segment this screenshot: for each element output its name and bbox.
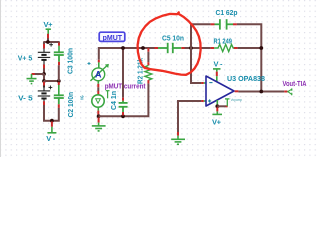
jumper V- opamp: [213, 69, 221, 72]
wire output: [235, 90, 239, 92]
ground VG1: [98, 118, 100, 123]
svg-text:V+ 5: V+ 5: [18, 53, 33, 62]
wire ammeter to VG1: [97, 81, 99, 84]
svg-text:U3 OPA838: U3 OPA838: [227, 74, 265, 83]
svg-text:R1 249: R1 249: [214, 36, 233, 45]
battery V+5 plus marker: [49, 43, 53, 47]
capacitor C4: [122, 98, 124, 101]
wire VG1 bottom: [97, 107, 99, 110]
resistor R2: [147, 48, 149, 52]
node C4 top (on bus): [121, 46, 125, 50]
ammeter AM1 pMUT current: [90, 65, 107, 81]
jumper pin VG1 side: [106, 91, 110, 99]
jumper V+ opamp: [216, 107, 218, 111]
red annotation ellipse around C5: [138, 12, 201, 74]
svg-text:Vopamp: Vopamp: [231, 98, 243, 102]
wire R1 to right vertical: [238, 47, 262, 49]
node C: [57, 79, 61, 83]
svg-text:C1 62p: C1 62p: [216, 8, 238, 17]
capacitor C2: [54, 95, 64, 104]
wire to sense pin: [217, 105, 226, 107]
node opamp supply: [215, 104, 219, 108]
svg-text:A: A: [95, 70, 102, 80]
opamp V+ pin: [216, 100, 218, 104]
wire battery V-5 top lead: [43, 81, 45, 88]
wire battery bottom: [43, 65, 45, 75]
wire top node row: [44, 41, 59, 43]
jumper V+ top: [46, 29, 51, 34]
sense pin jumper: [225, 99, 230, 106]
capacitor C5: [155, 47, 159, 49]
jumper V- bottom: [51, 122, 53, 127]
opamp plus marker: [208, 99, 211, 102]
wire main bus: [99, 48, 155, 60]
battery V-5: [38, 91, 50, 101]
wire +input row: [178, 101, 201, 132]
opamp minus marker: [209, 82, 212, 84]
svg-text:C3 100n: C3 100n: [66, 48, 75, 74]
svg-text:V+: V+: [44, 20, 54, 29]
node C4 bottom: [121, 114, 125, 118]
wire cap row: [44, 80, 59, 82]
ground +input: [177, 132, 179, 136]
wire C4 column: [122, 48, 124, 98]
svg-text:V- 5: V- 5: [18, 94, 33, 103]
svg-text:C2 100n: C2 100n: [66, 92, 75, 118]
wire column node to node: [43, 74, 45, 81]
wire V+ jumper to node: [47, 34, 49, 42]
capacitor C2 top lead: [58, 82, 60, 85]
svg-text:Vout-TIA: Vout-TIA: [283, 81, 307, 88]
node B: [42, 79, 46, 83]
node R2 bus dot: [141, 46, 145, 50]
capacitor C3: [54, 52, 64, 62]
resistor R1: [211, 47, 215, 49]
battery V-5 plus marker: [49, 86, 53, 90]
wire C1 to right corner: [237, 24, 261, 91]
wire to ground: [32, 73, 45, 75]
wire C1 row: [191, 23, 211, 25]
svg-text:C4 1n: C4 1n: [109, 91, 118, 110]
svg-text:C5 10n: C5 10n: [162, 34, 184, 43]
ammeter plus marker: [88, 62, 91, 65]
node output: [259, 90, 263, 94]
battery V+5: [38, 52, 50, 64]
node ground tap: [42, 72, 46, 76]
capacitor C3 top lead: [58, 41, 60, 43]
wire C2 bottom corner: [52, 108, 59, 121]
node R1 C1 join: [259, 46, 263, 50]
label pMUT box: [99, 32, 125, 41]
wire battery V-5 bottom: [44, 101, 52, 120]
jumper Vout: [288, 89, 292, 95]
svg-text:pMUT: pMUT: [103, 33, 123, 42]
op-amp U3 OPA838: [206, 76, 234, 106]
window left edge: [0, 0, 2, 157]
wire feedback vertical: [191, 24, 201, 83]
svg-text:V+: V+: [212, 117, 222, 126]
svg-text:VG: VG: [80, 95, 85, 100]
wire C3 bottom to node C: [58, 65, 60, 81]
wire bottom row: [99, 83, 149, 116]
node A: [46, 40, 50, 44]
source VG1: [92, 95, 104, 107]
ground supply mid: [27, 74, 37, 84]
node VG ground: [97, 114, 101, 118]
wire C5 to node: [185, 47, 211, 49]
capacitor C1: [215, 19, 234, 29]
node V- bottom: [50, 119, 54, 123]
node feedback: [189, 46, 193, 50]
wire battery top lead: [43, 41, 45, 48]
